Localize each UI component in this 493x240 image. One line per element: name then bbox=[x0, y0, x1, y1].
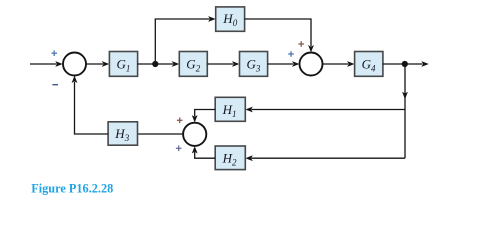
block H2 bbox=[215, 146, 245, 170]
block G1 bbox=[109, 52, 137, 77]
sign + at S2 left input bbox=[288, 51, 294, 57]
wire H0 to summing junction S2 bbox=[245, 19, 314, 52]
wire H2 to S3 bbox=[192, 146, 215, 158]
wire H1 to summing junction S3 bbox=[192, 110, 215, 123]
sign - at S1 feedback input bbox=[52, 84, 58, 86]
wire G1 to G2 bbox=[138, 61, 180, 67]
wire S2 to G4 bbox=[323, 61, 355, 67]
wire feedback to H1 bbox=[245, 107, 405, 113]
node after G1 bbox=[152, 61, 158, 67]
sign + at S1 input bbox=[52, 50, 58, 56]
wire feedback drop from output node bbox=[402, 64, 408, 158]
node after G4 bbox=[402, 61, 408, 67]
block H0 bbox=[216, 7, 245, 31]
sign + at S3 top input bbox=[177, 118, 183, 124]
wire G3 to S2 bbox=[268, 61, 300, 67]
summing junction S3 bbox=[183, 123, 206, 146]
wire S3 to H3 bbox=[138, 133, 184, 135]
wire G2 to G3 bbox=[207, 61, 239, 67]
wire feedback to H2 bbox=[245, 155, 405, 161]
wire H3 to S1 bbox=[72, 76, 109, 134]
wire G4 to output bbox=[383, 61, 429, 67]
block H3 bbox=[108, 122, 137, 145]
sign + at S2 top input bbox=[298, 41, 304, 47]
block G4 bbox=[355, 52, 383, 77]
block G3 bbox=[240, 52, 268, 77]
block G2 bbox=[179, 52, 207, 77]
block H1 bbox=[215, 97, 245, 121]
summing junction S1 bbox=[63, 53, 86, 76]
sign + at S3 bottom input bbox=[176, 146, 182, 152]
wire branch node to H0 bbox=[155, 16, 215, 64]
svg-text:Figure P16.2.28: Figure P16.2.28 bbox=[31, 181, 113, 195]
wire S1 to G1 bbox=[86, 61, 109, 67]
summing junction S2 bbox=[300, 53, 323, 76]
wire input to summing junction S1 bbox=[30, 61, 63, 67]
